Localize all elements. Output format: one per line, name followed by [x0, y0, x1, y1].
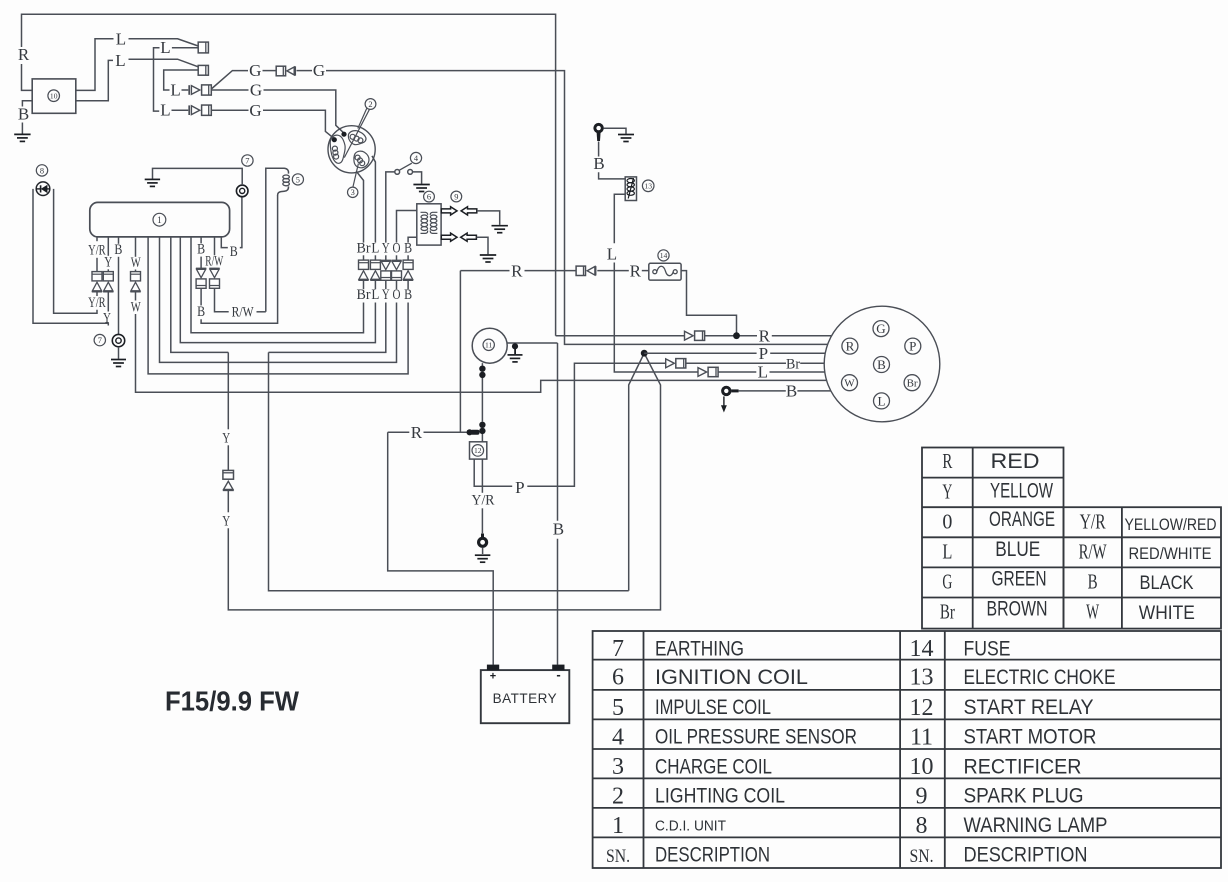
svg-text:R/W: R/W	[1079, 540, 1107, 564]
svg-text:W: W	[844, 377, 855, 389]
start relay 12 box	[470, 442, 487, 459]
warning lamp symbol	[36, 182, 50, 196]
wire eyelet to ground	[118, 347, 120, 359]
connector A female	[198, 42, 208, 53]
magneto terminal dot G row3	[332, 137, 337, 142]
wire R top continued	[22, 14, 556, 335]
svg-text:BLUE: BLUE	[995, 538, 1040, 561]
wire R from rectifier up and across top to remote-control rail	[22, 64, 33, 90]
svg-text:L: L	[607, 245, 617, 264]
start motor circle	[472, 328, 507, 363]
wire L to circle port	[770, 371, 825, 373]
spark plug arrow top out	[441, 207, 457, 215]
svg-text:WHITE: WHITE	[1139, 603, 1195, 624]
svg-text:SN.: SN.	[910, 846, 934, 867]
wire Br column upper	[363, 255, 365, 260]
fuse 14 box	[649, 263, 681, 280]
connector on Br line	[666, 359, 675, 368]
svg-text:IGNITION COIL: IGNITION COIL	[655, 666, 808, 689]
svg-text:B: B	[877, 357, 886, 372]
oil pressure sensor switch contact left	[395, 170, 400, 175]
fuse circled number 14	[658, 250, 669, 261]
svg-text:Br: Br	[357, 287, 371, 303]
svg-text:L: L	[758, 363, 768, 382]
svg-text:7: 7	[612, 636, 624, 662]
wire L from magneto to connector column	[372, 156, 375, 243]
wire L row1 to connector A	[129, 39, 199, 46]
ground earthing right	[145, 178, 160, 180]
wire B impulse pin from CDI	[200, 238, 202, 244]
wire Y lower	[227, 491, 229, 513]
bullet connector dots motor lead	[479, 366, 485, 372]
svg-text:L: L	[116, 30, 126, 49]
connector pair Br column	[359, 260, 369, 269]
wire G row2 to magneto	[264, 90, 345, 133]
wire B impulse to impulse coil bottom	[201, 195, 278, 323]
wire R/W to impulse coil top	[257, 311, 266, 313]
svg-text:FUSE: FUSE	[964, 637, 1011, 660]
wire G net row1 long to remote-control rail and circle port G	[326, 71, 828, 345]
remote control connector circle	[824, 306, 940, 422]
svg-text:9: 9	[454, 192, 458, 201]
svg-text:G: G	[249, 61, 261, 80]
wire L column upper	[374, 255, 376, 260]
connector pair R/W	[209, 267, 219, 269]
svg-text:B: B	[553, 519, 564, 538]
wire eyelet to ground top	[603, 128, 626, 134]
wire R/W net to P junction left leg	[269, 352, 645, 590]
svg-text:START MOTOR: START MOTOR	[964, 726, 1097, 749]
connector pair Y pin	[103, 272, 113, 281]
svg-text:LIGHTING COIL: LIGHTING COIL	[655, 785, 785, 808]
wire R fuse line left segment	[460, 270, 509, 272]
wire Y pin from CDI	[107, 238, 109, 256]
wire Y column lower	[385, 280, 387, 289]
svg-text:P: P	[759, 344, 768, 363]
start motor terminal pin	[512, 343, 518, 349]
svg-text:DESCRIPTION: DESCRIPTION	[655, 844, 770, 867]
wire L row4 stub	[172, 109, 189, 111]
svg-text:R: R	[846, 339, 855, 354]
impulse coil circled number 5	[292, 174, 303, 185]
wire eyelet to ground relay	[482, 548, 484, 554]
port L of remote control connector	[874, 393, 890, 409]
svg-text:YELLOW: YELLOW	[990, 479, 1053, 502]
wire B from rectifier to ground	[22, 101, 32, 134]
wire Y pin lower	[107, 292, 109, 312]
svg-text:R/W: R/W	[205, 253, 224, 269]
wire Y to P junction right leg	[228, 353, 660, 610]
svg-text:Br: Br	[907, 377, 918, 389]
svg-text:Y: Y	[382, 287, 390, 303]
svg-text:B: B	[593, 154, 604, 173]
wire L from choke down	[614, 194, 625, 243]
wire R into fuse	[642, 270, 649, 272]
svg-text:7: 7	[98, 336, 102, 345]
svg-text:6: 6	[612, 665, 624, 691]
wire Y column upper	[385, 255, 387, 260]
ignition coil box	[417, 204, 441, 245]
svg-text:P: P	[909, 339, 916, 354]
wire L column to CDI pin	[180, 238, 375, 343]
svg-text:B: B	[786, 382, 797, 401]
wire R to circle port	[772, 335, 832, 337]
connector on L line	[698, 368, 707, 377]
relay junction pin bullet	[467, 429, 473, 435]
svg-text:12: 12	[910, 695, 934, 721]
svg-text:11: 11	[485, 340, 493, 349]
svg-text:W: W	[1086, 600, 1099, 624]
svg-text:P: P	[515, 478, 524, 497]
svg-text:2: 2	[368, 100, 372, 109]
svg-text:Y/R: Y/R	[88, 242, 106, 258]
spark plug arrow bottom out	[441, 233, 457, 241]
svg-text:2: 2	[612, 783, 624, 809]
svg-text:11: 11	[910, 724, 933, 750]
wire P to remote control circle	[644, 352, 756, 354]
svg-text:G: G	[942, 570, 952, 594]
svg-text:3: 3	[351, 188, 355, 197]
battery box	[481, 670, 570, 723]
pin below B eyelet with down arrow	[723, 396, 725, 406]
svg-text:Y/R: Y/R	[88, 295, 106, 311]
wire battery negative rail	[557, 343, 559, 665]
wire Y pin mid	[107, 269, 109, 271]
wire O column to ignition coil primary	[397, 211, 417, 243]
wire B column to CDI pin	[148, 238, 408, 374]
port W of remote control connector	[842, 375, 858, 391]
svg-text:W: W	[131, 299, 142, 315]
wire G row3 to magneto	[263, 110, 334, 139]
svg-text:B: B	[197, 304, 205, 320]
earthing eyelet 7 left	[112, 334, 124, 346]
svg-text:Br: Br	[940, 600, 955, 624]
svg-text:Br: Br	[357, 240, 371, 256]
svg-text:L: L	[371, 240, 379, 256]
wire B column upper	[407, 255, 409, 260]
wire B column to ignition coil primary low	[408, 237, 417, 242]
wire P to circle port	[770, 352, 825, 354]
svg-text:Y: Y	[222, 430, 230, 446]
wire Br to circle port	[800, 362, 824, 364]
svg-text:Y: Y	[222, 513, 230, 529]
C.D.I. unit circled number 1	[153, 213, 166, 226]
wire sensor to ground	[413, 172, 422, 184]
wire Br column lower	[363, 280, 365, 289]
svg-text:L: L	[115, 51, 125, 70]
wire Y column up to oil pressure sensor	[386, 172, 395, 243]
svg-text:B: B	[1088, 570, 1098, 594]
wire R/W mid	[214, 267, 216, 269]
port G of remote control connector	[873, 321, 889, 337]
wire B column lower	[407, 280, 409, 289]
bullet connector dots relay lead	[479, 422, 485, 428]
junction dot R	[733, 332, 740, 339]
svg-text:L: L	[160, 101, 170, 120]
circle line B eyelet	[721, 386, 731, 396]
wire R to battery positive	[388, 432, 494, 665]
svg-text:BROWN: BROWN	[987, 597, 1048, 620]
wire R from corner down to start relay junction	[459, 271, 461, 433]
svg-text:9: 9	[916, 783, 928, 809]
wire Y mid	[227, 445, 229, 470]
earthing eyelet 7 right	[236, 185, 248, 197]
top B eyelet terminal	[593, 123, 603, 133]
svg-text:R: R	[759, 327, 771, 346]
ignition coil circled number 6	[424, 191, 435, 202]
svg-text:Y: Y	[382, 240, 390, 256]
wire eyelet up and to ground	[153, 168, 243, 185]
svg-text:Br: Br	[786, 357, 800, 373]
svg-text:CHARGE COIL: CHARGE COIL	[655, 755, 772, 778]
wire spark plug top to ground	[477, 211, 500, 225]
svg-text:13: 13	[910, 665, 934, 691]
wire Y/R pin mid	[96, 258, 98, 272]
ground spark plug top	[492, 225, 508, 227]
wire W pin mid	[135, 270, 137, 272]
spark plug arrow top in	[461, 207, 477, 215]
electric choke 13 box	[625, 177, 636, 201]
wire relay control down	[474, 459, 512, 486]
wire Y column to oil sensor net	[269, 303, 386, 353]
junction dot P	[641, 350, 648, 357]
svg-text:5: 5	[296, 175, 300, 184]
svg-text:START RELAY: START RELAY	[964, 696, 1094, 719]
wire G row3 from connector D	[211, 109, 248, 111]
svg-text:L: L	[170, 80, 180, 99]
wire Y/R pin lower	[96, 292, 98, 296]
wire B to choke	[599, 172, 626, 179]
svg-text:SN.: SN.	[606, 846, 630, 867]
pointer line 2a	[358, 108, 367, 128]
wire relay control to Br circle line	[527, 363, 665, 486]
port P of remote control connector	[905, 338, 921, 354]
magneto terminal dot G row2	[341, 132, 346, 137]
relay ground eyelet	[481, 534, 484, 539]
wire start motor to battery rail	[507, 342, 557, 344]
svg-text:R: R	[511, 261, 523, 280]
wire R relay feed to pin	[424, 431, 467, 433]
port R of remote control connector	[842, 338, 858, 354]
svg-text:R: R	[411, 423, 423, 442]
wire W pin from CDI	[135, 238, 137, 257]
svg-text:F15/9.9 FW: F15/9.9 FW	[165, 686, 300, 717]
svg-text:1: 1	[612, 813, 624, 839]
svg-text:ORANGE: ORANGE	[989, 508, 1055, 531]
battery terminal negative	[552, 665, 564, 671]
wire Y from CDI down through connector	[227, 352, 229, 429]
wire L riser 2 from rectifier	[76, 60, 113, 100]
pointer line 2b	[344, 109, 369, 157]
connector C female	[202, 85, 212, 95]
connector pair L column	[370, 260, 380, 269]
svg-text:5: 5	[612, 695, 624, 721]
svg-text:-: -	[556, 667, 560, 682]
svg-text:RED/WHITE: RED/WHITE	[1129, 544, 1212, 563]
wire B line mid	[739, 390, 786, 392]
lighting coil left blob	[330, 135, 345, 163]
wire R main line to circle	[556, 335, 757, 337]
wire W net to remote control circle port W	[136, 314, 827, 392]
wire Y/R lower	[481, 508, 483, 533]
ground rectifier	[14, 133, 30, 135]
connector pair on Y wire	[223, 470, 234, 479]
wire start motor down with bullet connectors	[481, 363, 483, 442]
wire L bracket top into connector A	[172, 47, 198, 49]
earthing circled number 7 right	[242, 155, 253, 166]
wire G row2 from connector C	[211, 89, 248, 91]
wire L row3 stub	[182, 89, 189, 91]
svg-text:14: 14	[910, 636, 934, 662]
svg-text:B: B	[230, 244, 238, 260]
svg-text:WARNING LAMP: WARNING LAMP	[964, 814, 1108, 837]
inline connector pair on G row1	[276, 66, 285, 76]
connector pair Y/R	[92, 272, 102, 281]
svg-text:R: R	[630, 261, 642, 280]
svg-text:L: L	[878, 393, 886, 408]
description table grid	[593, 631, 1221, 868]
wire B earthing-right pin from CDI	[221, 238, 228, 248]
impulse coil outline	[266, 168, 289, 312]
svg-text:W: W	[131, 255, 142, 271]
start motor circled number 11	[483, 339, 494, 350]
svg-text:Y/R: Y/R	[472, 493, 495, 509]
ground relay	[475, 554, 491, 556]
svg-text:B: B	[197, 242, 205, 258]
port B of remote control connector	[874, 357, 890, 373]
earthing circled number 7 left	[94, 334, 105, 345]
wire B to circle port	[797, 390, 830, 392]
svg-text:4: 4	[612, 724, 624, 750]
wire G row1 mid	[297, 70, 313, 72]
svg-text:RECTIFICER: RECTIFICER	[964, 755, 1082, 778]
svg-text:C.D.I. UNIT: C.D.I. UNIT	[655, 817, 726, 834]
svg-text:G: G	[313, 61, 325, 80]
svg-text:SPARK PLUG: SPARK PLUG	[964, 785, 1084, 808]
svg-text:14: 14	[660, 251, 668, 260]
svg-text:EARTHING: EARTHING	[655, 637, 744, 660]
port Br of remote control connector	[904, 375, 920, 391]
svg-text:8: 8	[916, 813, 928, 839]
svg-text:Y: Y	[104, 254, 112, 270]
wire Y/R to warning lamp	[54, 189, 97, 313]
wire Br column to CDI pin	[191, 238, 364, 333]
connector B female	[198, 65, 208, 75]
rectificer U10 box	[32, 79, 76, 113]
svg-text:Y/R: Y/R	[1080, 510, 1106, 534]
wire B to eyelet 7 right	[240, 197, 242, 248]
wire O column to CDI pin	[160, 238, 397, 363]
svg-text:6: 6	[427, 192, 431, 201]
wire W pin lower	[135, 292, 137, 301]
oil pressure sensor circled number 4	[410, 152, 421, 163]
svg-text:L: L	[942, 540, 952, 564]
svg-text:OIL PRESSURE SENSOR: OIL PRESSURE SENSOR	[655, 726, 857, 749]
wire G row1 diagonal from connector C	[211, 71, 248, 89]
charge coil circled number 3	[348, 187, 358, 197]
wire R relay feed horizontal	[388, 431, 410, 433]
wire Br line mid	[686, 362, 786, 364]
wire R/W lower to elbow	[215, 288, 229, 312]
color legend table grid	[922, 448, 1221, 629]
svg-text:Y: Y	[942, 479, 952, 503]
svg-text:B: B	[404, 287, 412, 303]
oil pressure sensor switch lever	[399, 163, 411, 170]
oil pressure sensor switch contact right	[408, 170, 413, 175]
svg-text:L: L	[371, 287, 379, 303]
svg-text:B: B	[18, 105, 29, 124]
svg-text:B: B	[114, 242, 122, 258]
wire L line mid	[718, 371, 756, 373]
wire B eyelet down	[598, 142, 600, 157]
male connector row4	[188, 105, 190, 115]
spark plug arrow bottom in	[461, 233, 477, 241]
wire L column lower	[374, 280, 376, 289]
svg-text:7: 7	[245, 156, 249, 165]
ground start motor	[508, 354, 523, 356]
svg-text:DESCRIPTION: DESCRIPTION	[964, 844, 1088, 867]
svg-text:0: 0	[942, 509, 952, 533]
svg-text:12: 12	[474, 446, 482, 455]
svg-text:O: O	[393, 287, 401, 303]
wire spark plug bottom to ground	[476, 237, 488, 254]
wire L choke to circle line	[614, 263, 698, 373]
wire B pin long from CDI	[118, 238, 120, 244]
wire O column lower	[396, 280, 398, 289]
svg-text:G: G	[876, 321, 885, 336]
wire R fuse line to connector	[525, 270, 577, 272]
wire L riser 1 from rectifier	[76, 39, 114, 91]
svg-text:10: 10	[910, 754, 934, 780]
male connector row3	[188, 85, 190, 95]
connector pair Y column	[381, 259, 391, 261]
svg-text:8: 8	[40, 166, 44, 175]
charge coil bottom-right blob	[354, 151, 369, 168]
svg-text:YELLOW/RED: YELLOW/RED	[1125, 515, 1217, 534]
ignition coil left winding	[421, 212, 428, 233]
svg-text:1: 1	[157, 215, 162, 225]
svg-text:B: B	[404, 240, 412, 256]
wire Y/R pin from CDI	[96, 238, 98, 242]
wire B impulse mid	[200, 257, 202, 269]
wire R/W pin from CDI	[214, 238, 216, 256]
ignition coil right winding	[430, 212, 437, 233]
svg-text:R: R	[942, 449, 952, 473]
pointer line 3	[353, 164, 359, 188]
wire L elbow2 into connector B	[164, 70, 199, 90]
connector on R main line	[685, 331, 694, 340]
svg-text:G: G	[250, 81, 262, 100]
svg-text:BATTERY: BATTERY	[493, 691, 558, 706]
ground top B	[618, 134, 634, 136]
wire Y pin to warning lamp return	[33, 189, 108, 326]
wire O column upper	[396, 255, 398, 260]
svg-text:L: L	[160, 38, 170, 57]
svg-text:R/W: R/W	[232, 304, 255, 320]
wire B impulse lower	[200, 288, 202, 305]
spark plug circled number 9	[451, 191, 462, 202]
lighting coil circled number 2	[365, 99, 376, 110]
svg-text:10: 10	[50, 91, 58, 100]
warning lamp circled number 8	[36, 165, 47, 176]
electric choke circled number 13	[642, 180, 654, 192]
connector pair O column	[391, 259, 401, 261]
battery terminal positive	[487, 665, 499, 671]
svg-text:+: +	[490, 670, 496, 682]
connector pair B column	[403, 260, 413, 269]
start relay circled number 12	[472, 445, 484, 457]
svg-text:3: 3	[612, 754, 624, 780]
